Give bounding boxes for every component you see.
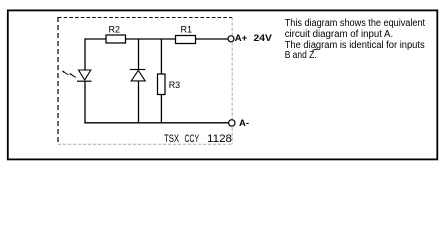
svg-text:This diagram shows the equival: This diagram shows the equivalent: [285, 18, 426, 29]
svg-text:R3: R3: [169, 80, 181, 90]
svg-text:circuit diagram of input A.: circuit diagram of input A.: [285, 29, 394, 40]
svg-text:B and Z.: B and Z.: [285, 50, 317, 61]
svg-text:1128: 1128: [207, 133, 232, 145]
svg-text:A+: A+: [235, 33, 248, 44]
svg-text:R2: R2: [109, 25, 121, 35]
svg-text:CCY: CCY: [185, 133, 200, 145]
svg-text:TSX: TSX: [164, 133, 179, 145]
svg-text:24V: 24V: [254, 33, 273, 44]
svg-text:A-: A-: [239, 118, 249, 129]
svg-text:R1: R1: [181, 25, 193, 35]
